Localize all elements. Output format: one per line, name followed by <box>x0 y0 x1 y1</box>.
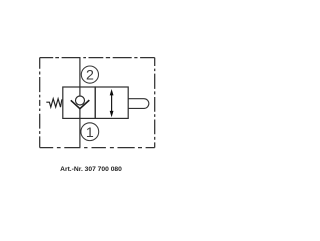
spring <box>46 99 62 107</box>
svg-text:Art.-Nr. 307 700 080: Art.-Nr. 307 700 080 <box>60 166 122 173</box>
envelope boundary, left edge <box>39 58 41 148</box>
plug tab (rounded) <box>128 99 149 109</box>
arrowhead bottom <box>110 111 114 117</box>
envelope boundary (dash-dot), top edge <box>40 57 155 59</box>
pilot flow double arrow shaft <box>111 93 113 113</box>
right square (pilot position box) <box>95 87 128 118</box>
envelope boundary, bottom edge <box>40 147 155 149</box>
arrowhead top <box>110 89 114 95</box>
wire: vertical port line top (port 2 to valve) <box>79 58 81 97</box>
port circle 2 <box>81 66 98 83</box>
check valve poppet circle <box>76 96 85 105</box>
wire: vertical port line bottom (valve to port 1) <box>79 108 81 147</box>
svg-text:1: 1 <box>86 125 94 141</box>
svg-text:2: 2 <box>86 67 94 83</box>
left square (check valve position box) <box>63 87 95 118</box>
envelope boundary, right edge <box>154 58 156 148</box>
check valve seat (V) <box>71 100 90 109</box>
port circle 1 <box>81 123 99 141</box>
